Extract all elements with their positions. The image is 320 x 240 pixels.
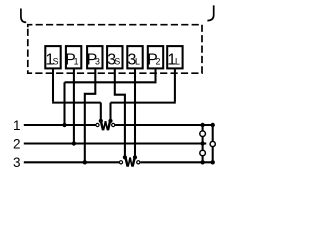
wire: drop from B0 to line 1 xyxy=(63,82,65,125)
svg-text:3: 3 xyxy=(13,155,21,170)
W2 right terminal circle xyxy=(137,161,140,164)
terminal box P2 xyxy=(148,46,163,68)
svg-text:3: 3 xyxy=(95,57,100,67)
right voltage rail xyxy=(202,125,204,162)
line 3 (right segment) xyxy=(140,161,213,163)
wire: bar B0 (P2 jog left) xyxy=(65,81,157,83)
junction dot P3/line3 xyxy=(83,160,87,164)
terminal box 3L xyxy=(127,46,142,68)
svg-text:1: 1 xyxy=(13,118,21,133)
svg-text:L: L xyxy=(135,57,140,67)
junction dot P1/line2 xyxy=(72,141,76,145)
wire: drop from B1 to W1 left arm xyxy=(100,103,102,121)
rail lamp circle upper xyxy=(200,131,206,137)
terminal box 1S xyxy=(45,46,60,68)
right ear arc xyxy=(207,5,213,20)
wire: P2 down to bar B0 xyxy=(154,68,156,81)
current link W2 glyph xyxy=(124,157,136,166)
W1 right junction dot xyxy=(108,119,112,123)
current link W1 glyph xyxy=(100,121,112,130)
left ear arc xyxy=(21,9,26,23)
svg-text:1: 1 xyxy=(74,57,79,67)
W1 left junction dot xyxy=(99,119,103,123)
wire: 1S down to bar B1 xyxy=(52,68,54,102)
line 3 (left segment) xyxy=(24,161,119,163)
rail lamp circle lower xyxy=(200,150,206,156)
outer rail dot on line 1 xyxy=(211,123,215,127)
svg-text:2: 2 xyxy=(13,136,21,151)
W2 left terminal circle xyxy=(119,161,122,164)
terminal box 1L xyxy=(167,46,182,68)
W1 left terminal circle xyxy=(96,123,99,126)
wire: drop from B2 to W1 right arm xyxy=(109,103,111,121)
wire: 3S down with jog right to W2 left arm xyxy=(115,68,125,157)
right outer rail xyxy=(212,125,214,162)
outer rail lamp circle xyxy=(210,141,215,146)
rail dot on line 3 xyxy=(200,160,204,164)
W2 left junction dot xyxy=(123,155,127,159)
wire: bar B2 (1L to W1 right drop) xyxy=(111,102,176,104)
wire: 1L down to bar B2 xyxy=(174,68,176,102)
svg-text:S: S xyxy=(53,57,59,67)
wire: 3L down to W2 right arm xyxy=(134,68,136,157)
line 2 xyxy=(24,142,207,144)
wire: P1 down to line 2 xyxy=(73,68,75,144)
line 1 (right segment) xyxy=(115,124,214,126)
meter case outline (dashed box) xyxy=(28,25,202,73)
wire: P3 down with jog left to line 3 xyxy=(85,68,96,162)
line 1 (left segment) xyxy=(24,124,96,126)
junction dot B0-drop/line1 xyxy=(62,123,66,127)
rail dot on line 2 xyxy=(200,141,204,145)
svg-text:L: L xyxy=(175,57,180,67)
svg-text:S: S xyxy=(114,57,120,67)
svg-text:2: 2 xyxy=(156,57,161,67)
rail dot on line 1 xyxy=(200,123,204,127)
terminal box P1 xyxy=(66,46,81,68)
terminal box 3S xyxy=(107,46,122,68)
terminal box P3 xyxy=(87,46,102,68)
outer rail dot on line 3 xyxy=(211,160,215,164)
W1 right terminal circle xyxy=(112,123,115,126)
W2 right junction dot xyxy=(133,155,137,159)
wire: bar B1 (1S to W1 left drop) xyxy=(52,102,101,104)
